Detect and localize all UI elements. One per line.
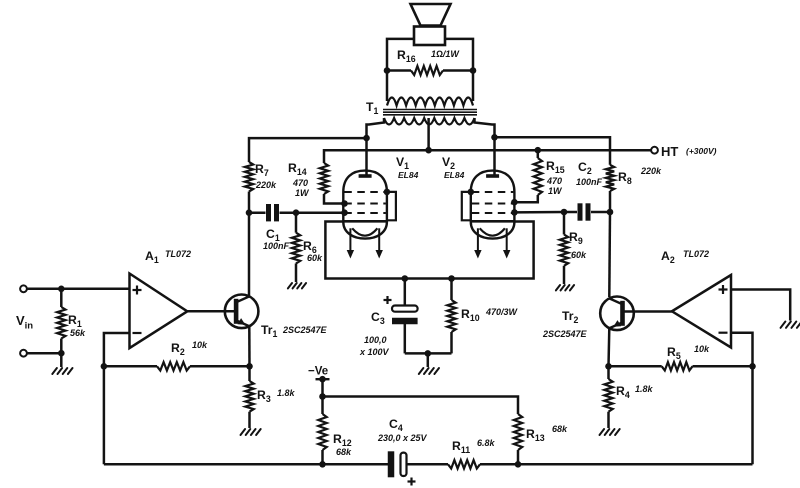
wire V1 anode to R7: [249, 138, 367, 162]
capacitor C4: [391, 451, 448, 485]
junction R12 bottom: [319, 461, 326, 468]
ground below C3: [419, 353, 439, 374]
junction C2 right node: [607, 209, 614, 216]
svg-text:60k: 60k: [307, 253, 323, 263]
junction V1 g2 pin: [341, 200, 348, 207]
junction V1 g3 pin: [384, 189, 391, 196]
wire A2 inverting input: [731, 333, 753, 367]
junction C3 node: [402, 275, 409, 282]
label R4: [616, 384, 654, 400]
label C1: [263, 227, 290, 251]
wire V2 grid: [514, 211, 564, 214]
wire primary left lead to V1 anode: [367, 118, 385, 176]
svg-text:−Ve: −Ve: [308, 366, 328, 378]
resistor R9: [560, 212, 568, 284]
junction R1 bottom: [58, 350, 65, 357]
label Tr2: [542, 309, 588, 339]
resistor R6: [292, 213, 300, 282]
svg-text:6.8k: 6.8k: [477, 438, 496, 448]
transformer T1: [383, 98, 477, 125]
resistor R1: [57, 289, 65, 353]
label V2: [442, 155, 465, 180]
resistor R13: [514, 414, 522, 464]
transistor Tr1: [225, 295, 259, 329]
wire Tr2 emitter: [607, 328, 610, 366]
wire speaker right lead: [445, 39, 473, 71]
svg-text:EL84: EL84: [444, 170, 465, 180]
svg-text:100nF: 100nF: [263, 241, 290, 251]
terminal Vin bottom: [20, 350, 27, 357]
junction V1 g1 pin: [341, 209, 348, 216]
wire A1 inverting input: [104, 333, 130, 366]
svg-text:HT: HT: [661, 144, 678, 159]
svg-text:1.8k: 1.8k: [277, 388, 296, 398]
tube V1: [343, 171, 396, 259]
transistor Tr2: [600, 297, 634, 331]
junction cathode ground node: [425, 350, 432, 357]
junction V2 g3 pin: [468, 189, 475, 196]
svg-text:60k: 60k: [571, 250, 587, 260]
svg-text:68k: 68k: [552, 424, 568, 434]
resistor R11: [448, 460, 480, 468]
wire T1 centre tap: [427, 118, 430, 150]
junction V1 anode node: [363, 135, 370, 142]
svg-text:56k: 56k: [70, 328, 86, 338]
wire C1 node to Tr1 collector: [248, 213, 251, 297]
junction R15 top: [535, 147, 542, 154]
label Vin: [16, 313, 33, 332]
svg-text:10k: 10k: [694, 344, 710, 354]
wire bottom rail right: [480, 463, 753, 466]
wire secondary right: [472, 71, 475, 102]
junction R16 left: [384, 67, 391, 74]
label C2: [576, 160, 603, 187]
svg-text:1Ω/1W: 1Ω/1W: [431, 49, 460, 59]
label V1: [396, 155, 419, 180]
junction C1 left node: [246, 209, 253, 216]
junction R13 bottom: [515, 461, 522, 468]
wire cathode rail: [325, 222, 533, 279]
label R5: [667, 344, 710, 361]
junction A2 feedback node: [749, 363, 756, 370]
label R12: [333, 432, 352, 457]
label R10: [461, 307, 519, 323]
wire input top: [27, 288, 130, 291]
svg-text:470: 470: [292, 178, 308, 188]
wire HT rail: [325, 149, 651, 152]
junction R1 top: [58, 286, 65, 293]
svg-text:100nF: 100nF: [576, 177, 603, 187]
ground A2 non-inverting input: [781, 322, 800, 328]
junction V2 g2 pin: [511, 199, 518, 206]
svg-text:(+300V): (+300V): [686, 146, 717, 156]
capacitor C1: [249, 204, 296, 221]
resistor R15: [514, 150, 542, 202]
svg-text:x 100V: x 100V: [359, 347, 390, 357]
junction R10 node: [448, 275, 455, 282]
label R11: [452, 438, 496, 455]
wire speaker left lead: [387, 39, 414, 71]
resistor R8: [606, 165, 614, 212]
svg-text:2SC2547E: 2SC2547E: [282, 325, 328, 335]
label R2: [171, 340, 208, 357]
junction centre tap on HT rail: [425, 147, 432, 154]
svg-text:TL072: TL072: [683, 249, 709, 259]
resistor R5: [609, 362, 753, 370]
tube V2: [462, 171, 515, 259]
label Tr1: [261, 323, 328, 339]
ground below R9: [556, 285, 574, 290]
label R7: [255, 162, 277, 190]
junction A1 feedback node: [101, 363, 108, 370]
speaker LS: [411, 4, 451, 45]
svg-text:10k: 10k: [192, 340, 208, 350]
label R14: [288, 161, 310, 198]
label R1: [68, 313, 86, 338]
label HT: [661, 144, 717, 159]
wire A1 output: [187, 310, 235, 313]
label C4: [377, 417, 428, 443]
label -Ve: [308, 366, 328, 378]
resistor R3: [245, 366, 253, 428]
op-amp A2: [672, 275, 731, 348]
terminal HT: [651, 147, 658, 154]
svg-text:220k: 220k: [640, 166, 662, 176]
wire C2 node to Tr2 collector: [608, 212, 611, 297]
wire Tr1 emitter: [248, 326, 251, 366]
svg-text:470/3W: 470/3W: [485, 307, 519, 317]
label T1: [366, 100, 378, 116]
svg-text:470: 470: [546, 176, 562, 186]
label R6: [303, 239, 323, 263]
wire C3 R10 ground link: [405, 352, 452, 355]
terminal -Ve: [316, 376, 330, 397]
ground below R1: [52, 353, 72, 374]
svg-text:1W: 1W: [295, 188, 310, 198]
svg-text:TL072: TL072: [165, 249, 191, 259]
label A2: [661, 249, 709, 265]
wire bottom rail left: [104, 463, 391, 466]
junction Tr1 emitter node: [246, 363, 253, 370]
resistor R4: [604, 366, 612, 428]
resistor R7: [245, 162, 253, 213]
junction V2 anode node: [491, 134, 498, 141]
resistor R12: [318, 397, 326, 465]
wire right feedback drop: [751, 366, 754, 464]
resistor R14: [320, 150, 344, 203]
wire V1 grid: [296, 211, 343, 214]
wire secondary left: [386, 71, 389, 102]
wire primary right lead to V2 anode: [475, 118, 495, 176]
label R9: [569, 230, 587, 260]
wire A2 output: [625, 310, 672, 313]
label R8: [618, 166, 662, 186]
svg-text:EL84: EL84: [398, 170, 419, 180]
ground below R6: [288, 283, 306, 288]
wire -Ve to R13: [323, 397, 519, 415]
wire left feedback drop: [103, 366, 106, 464]
label A1: [145, 249, 191, 265]
svg-text:68k: 68k: [336, 447, 352, 457]
resistor R10: [447, 279, 455, 354]
label R13: [526, 424, 568, 443]
junction C2 left node: [561, 209, 568, 216]
wire input bottom: [27, 352, 61, 355]
junction C1 right node: [293, 209, 300, 216]
wire A2 non-inverting input: [731, 290, 790, 321]
label R16: [397, 48, 460, 64]
junction R16 right: [470, 67, 477, 74]
ground below R4: [600, 429, 620, 435]
capacitor C2: [564, 203, 610, 220]
resistor R2: [104, 362, 250, 370]
junction Tr2 emitter node: [605, 363, 612, 370]
svg-text:230,0 x 25V: 230,0 x 25V: [377, 433, 428, 443]
op-amp A1: [130, 274, 188, 349]
junction V2 g1 pin: [511, 209, 518, 216]
svg-text:2SC2547E: 2SC2547E: [542, 329, 588, 339]
label C3: [359, 310, 390, 357]
junction -Ve node: [319, 393, 326, 400]
svg-text:220k: 220k: [255, 180, 277, 190]
svg-text:100,0: 100,0: [364, 335, 387, 345]
svg-text:1W: 1W: [548, 186, 563, 196]
label R3: [257, 388, 296, 404]
wire V2 anode to R8: [495, 137, 611, 164]
ground below R3: [241, 429, 261, 435]
label R15: [546, 159, 565, 196]
capacitor C3: [384, 279, 418, 354]
resistor R16: [387, 66, 473, 75]
svg-text:1.8k: 1.8k: [635, 384, 654, 394]
terminal Vin top: [20, 285, 27, 292]
